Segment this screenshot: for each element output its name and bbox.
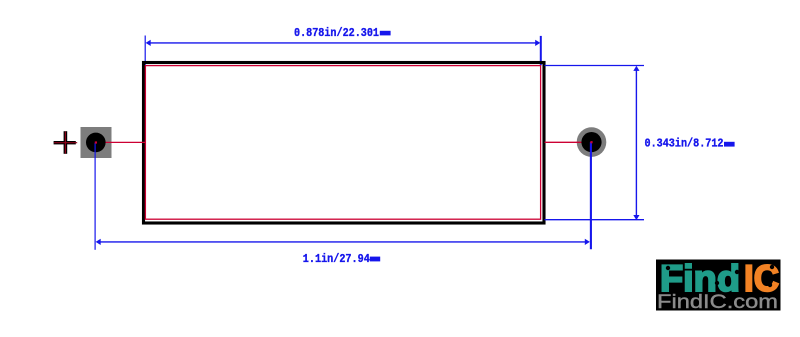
right dimension text 0.343in/8.712mm: [645, 138, 735, 151]
component body outline (red courtyard rectangle): [145, 66, 540, 220]
pad 2 (round pad): [577, 127, 607, 157]
node: bottom dimension right arrowhead: [585, 239, 590, 245]
node: right dimension top arrowhead: [633, 66, 639, 71]
top dimension text 0.878in/22.301mm: [294, 27, 391, 40]
wire: right dimension line: [635, 70, 637, 216]
node: pad 1 center mark: [95, 141, 97, 143]
wire: red ratsnest line pad1 to body: [96, 141, 145, 143]
wire: bottom dimension right extension line (from pad2 center): [590, 142, 592, 249]
polarity plus symbol: [54, 131, 78, 154]
node: top dimension left arrowhead: [146, 40, 151, 46]
FindIC logo: [656, 258, 781, 313]
wire: right dimension top extension line: [545, 65, 645, 67]
bottom dimension text 1.1in/27.94mm: [303, 253, 380, 266]
wire: red ratsnest line body to pad2: [545, 141, 592, 143]
node: pad 2 center mark: [590, 141, 592, 143]
pad 1 (square pad, positive): [81, 127, 112, 158]
wire: bottom dimension left extension line (from pad1 center): [94, 143, 96, 250]
pad 2 drill hole: [581, 132, 601, 152]
wire: bottom dimension line: [100, 241, 586, 243]
node: bottom dimension left arrowhead: [96, 239, 101, 245]
wire: top dimension line: [150, 42, 536, 44]
svg-text:0.343in/8.712: 0.343in/8.712: [645, 138, 724, 151]
svg-text:FindIC.com: FindIC.com: [657, 292, 778, 313]
svg-text:0.878in/22.301: 0.878in/22.301: [294, 27, 379, 40]
wire: top dimension right extension line: [540, 36, 542, 65]
pad 1 drill hole: [86, 133, 106, 153]
svg-text:1.1in/27.94: 1.1in/27.94: [303, 253, 370, 266]
component body outline (black silkscreen rectangle): [144, 63, 545, 224]
wire: right dimension bottom extension line: [545, 219, 645, 221]
node: right dimension bottom arrowhead: [633, 215, 639, 220]
wire: top dimension left extension line: [144, 36, 146, 66]
node: top dimension right arrowhead: [535, 40, 540, 46]
